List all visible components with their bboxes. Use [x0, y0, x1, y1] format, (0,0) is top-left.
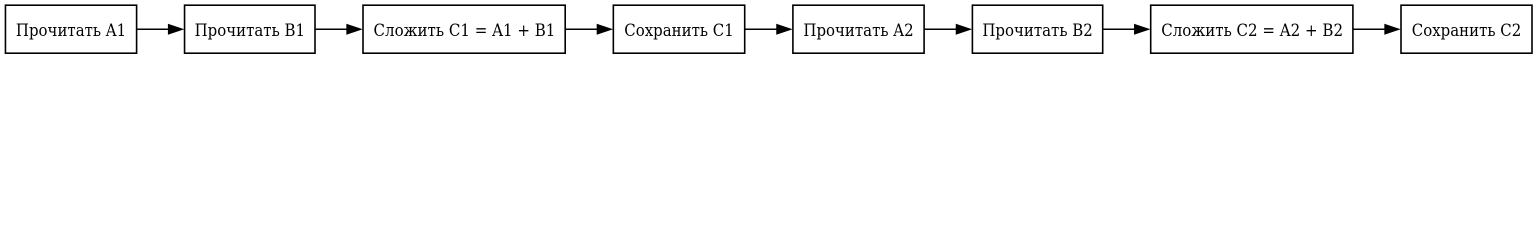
wire (edge shaft) B4->B5: [745, 28, 778, 30]
box B6 outline: [972, 5, 1102, 53]
svg-text:Прочитать A1: Прочитать A1: [16, 20, 126, 40]
svg-text:Сложить C2 = A2 + B2: Сложить C2 = A2 + B2: [1161, 20, 1343, 40]
arrow edge B5 -> B6: [924, 24, 972, 35]
box B5 outline: [793, 5, 924, 53]
process box B3: Сложить C1 = A1 + B1: [363, 5, 565, 53]
arrow edge B3 -> B4: [565, 24, 613, 35]
box B4 outline: [613, 5, 744, 53]
arrowhead at B2: [168, 24, 184, 35]
svg-text:Прочитать B1: Прочитать B1: [195, 20, 305, 40]
svg-text:Сложить C1 = A1 + B1: Сложить C1 = A1 + B1: [374, 20, 556, 40]
arrow edge B1 -> B2: [137, 24, 185, 35]
process box B2: Прочитать B1: [185, 5, 315, 53]
arrowhead at B5: [776, 24, 792, 35]
process box B1: Прочитать A1: [5, 5, 136, 53]
wire (edge shaft) B3->B4: [565, 28, 598, 30]
arrow edge B7 -> B8: [1353, 24, 1401, 35]
wire (edge shaft) B5->B6: [924, 28, 957, 30]
box B2 outline: [185, 5, 315, 53]
svg-text:Прочитать B2: Прочитать B2: [982, 20, 1092, 40]
wire (edge shaft) B6->B7: [1103, 28, 1136, 30]
box B8 outline: [1401, 5, 1532, 53]
svg-text:Прочитать A2: Прочитать A2: [803, 20, 913, 40]
arrowhead at B7: [1134, 24, 1150, 35]
wire (edge shaft) B1->B2: [137, 28, 170, 30]
box B1 outline: [5, 5, 136, 53]
process box B7: Сложить C2 = A2 + B2: [1151, 5, 1353, 53]
arrow edge B6 -> B7: [1103, 24, 1151, 35]
arrow edge B4 -> B5: [745, 24, 793, 35]
arrow edge B2 -> B3: [315, 24, 363, 35]
background: [0, 0, 1537, 59]
arrowhead at B6: [956, 24, 972, 35]
svg-text:Сохранить C2: Сохранить C2: [1412, 20, 1521, 40]
arrowhead at B4: [597, 24, 613, 35]
process box B8: Сохранить C2: [1401, 5, 1532, 53]
process box B5: Прочитать A2: [793, 5, 924, 53]
arrowhead at B8: [1384, 24, 1400, 35]
box B3 outline: [363, 5, 565, 53]
wire (edge shaft) B2->B3: [315, 28, 348, 30]
wire (edge shaft) B7->B8: [1353, 28, 1386, 30]
arrowhead at B3: [346, 24, 362, 35]
box B7 outline: [1151, 5, 1353, 53]
svg-text:Сохранить C1: Сохранить C1: [624, 20, 733, 40]
process box B6: Прочитать B2: [972, 5, 1102, 53]
process box B4: Сохранить C1: [613, 5, 744, 53]
